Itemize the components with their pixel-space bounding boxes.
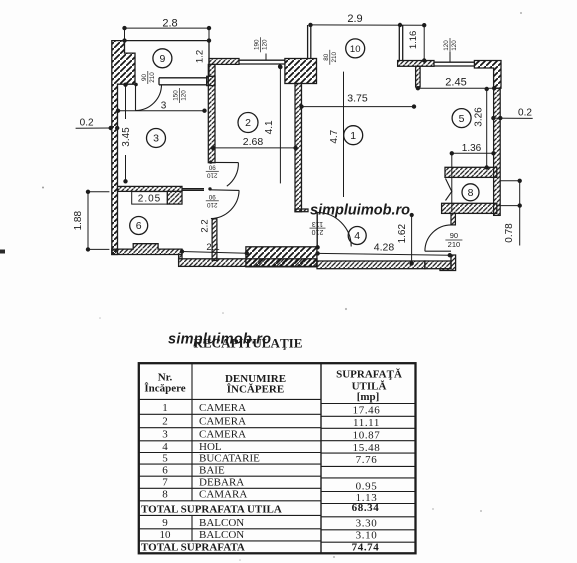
svg-text:1: 1 (162, 402, 168, 414)
wall pier balcony9 right (207, 76, 215, 85)
wall south door jamb right (440, 255, 456, 271)
wall door jamb room8 (451, 213, 455, 225)
dim 4.28 (318, 253, 450, 255)
svg-text:4: 4 (354, 230, 360, 242)
dim 2.68 (213, 147, 296, 149)
label door 113/210 room1 (310, 220, 326, 235)
svg-text:15.48: 15.48 (353, 442, 381, 454)
dim 4.1 vertical (279, 67, 281, 183)
svg-text:2.68: 2.68 (243, 136, 264, 148)
dim 3.75 (301, 106, 415, 108)
PLAN-DOOR-LABELS (141, 37, 462, 249)
svg-text:120: 120 (443, 40, 450, 51)
svg-text:6: 6 (136, 220, 142, 232)
window room3 north (159, 77, 207, 79)
svg-text:90: 90 (208, 164, 216, 171)
svg-text:TOTAL SUPRAFATA: TOTAL SUPRAFATA (141, 541, 245, 553)
svg-text:1.88: 1.88 (73, 211, 84, 231)
PLAN-ROOM-NUMBERS (130, 39, 479, 245)
svg-text:120: 120 (181, 90, 188, 101)
svg-text:0.78: 0.78 (504, 223, 515, 243)
svg-text:80: 80 (323, 53, 330, 61)
svg-text:1.36: 1.36 (462, 143, 482, 154)
svg-text:210: 210 (448, 240, 461, 249)
svg-text:simpluimob.ro: simpluimob.ro (310, 203, 410, 219)
room 3 circle (147, 129, 166, 148)
wall bath-hall partition (212, 219, 217, 261)
svg-text:3.75: 3.75 (347, 93, 368, 105)
wall room8 north (445, 167, 497, 177)
PLAN-DIM-TEXTS (73, 13, 532, 254)
dim 1.16 vertical (423, 25, 425, 60)
dim 2.45 (418, 87, 494, 89)
svg-text:4.1: 4.1 (264, 120, 275, 134)
svg-text:210: 210 (149, 72, 156, 83)
svg-text:1: 1 (350, 130, 356, 142)
door hall exterior leaf and arc (425, 250, 451, 252)
dim 2.8 (125, 27, 210, 29)
PLAN-DOORS (134, 83, 452, 252)
svg-text:2: 2 (245, 117, 251, 129)
wall south band connector (179, 255, 182, 259)
wall room3-room6 band (118, 186, 183, 191)
dim 3.45 vertical (125, 85, 127, 119)
svg-text:10.87: 10.87 (353, 430, 381, 442)
table v-line col1/2 (191, 363, 193, 501)
wall room3-room2 (208, 64, 215, 162)
svg-text:3.10: 3.10 (356, 530, 378, 542)
door bath leaf and arc (210, 189, 239, 192)
label door 90/210 balcony9 (141, 71, 156, 84)
svg-text:0.2: 0.2 (518, 108, 532, 119)
svg-text:DEBARA: DEBARA (199, 477, 244, 489)
dim 1.62 vertical (411, 213, 413, 264)
svg-text:9: 9 (162, 517, 168, 529)
label door 90/210 hall-exterior (445, 231, 462, 249)
door balcony9-room3 hinge leaf arc (134, 83, 138, 87)
bath threshold (182, 188, 204, 190)
svg-text:ÎNCĂPERE: ÎNCĂPERE (227, 384, 284, 396)
door room8 wedge (446, 179, 452, 201)
dim 2.9 (311, 24, 425, 26)
svg-text:Încăpere: Încăpere (144, 383, 185, 395)
svg-text:74.74: 74.74 (352, 542, 380, 554)
svg-text:2.2: 2.2 (200, 219, 211, 232)
dim 1.36 (452, 152, 494, 154)
svg-text:BALCON: BALCON (199, 529, 244, 541)
svg-text:11.11: 11.11 (353, 417, 380, 429)
door hinge dots (209, 160, 212, 163)
svg-text:5: 5 (162, 453, 168, 465)
room 8 circle (462, 184, 479, 201)
wall room2 north left (209, 59, 239, 65)
dim 3 room3 (118, 110, 205, 112)
balcony10 rail left (307, 25, 309, 59)
room 9 circle (153, 49, 172, 68)
svg-text:2.9: 2.9 (347, 13, 362, 25)
svg-text:CAMERA: CAMERA (199, 416, 246, 428)
svg-text:2.45: 2.45 (445, 77, 466, 89)
table h-lines value column (offset) (321, 404, 416, 543)
svg-text:2: 2 (162, 416, 168, 428)
extender window kitchen label (449, 52, 451, 62)
balcony10 rail right (398, 25, 400, 61)
label window 150/120 (173, 88, 188, 103)
svg-text:1.62: 1.62 (397, 224, 408, 244)
svg-text:3: 3 (153, 133, 159, 145)
door room3-hall leaf and arc (211, 161, 239, 163)
wall room8 south (442, 203, 497, 213)
window kitchen north (434, 61, 474, 63)
svg-text:7.76: 7.76 (356, 454, 378, 466)
svg-text:4.7: 4.7 (329, 129, 340, 143)
svg-text:150: 150 (173, 90, 180, 101)
svg-text:HOL: HOL (199, 441, 222, 453)
dim 4.7 vertical (343, 72, 345, 197)
svg-text:3.30: 3.30 (356, 518, 378, 530)
dim 2.1 (182, 252, 247, 254)
svg-text:BALCON: BALCON (199, 517, 244, 529)
room 5 circle (452, 109, 471, 128)
svg-text:4: 4 (162, 441, 168, 453)
svg-text:3: 3 (161, 101, 167, 112)
svg-text:3: 3 (162, 429, 168, 441)
wall room2-room1 (295, 84, 302, 212)
svg-text:CAMERA: CAMERA (199, 429, 246, 441)
svg-text:2.1: 2.1 (206, 242, 219, 253)
dim 0.78 vertical (500, 180, 520, 182)
svg-text:5: 5 (459, 113, 465, 125)
PLAN-RAILS-WINDOWS (125, 25, 475, 204)
balcony9 rail right (208, 41, 210, 77)
room 1 circle (344, 126, 363, 145)
room 4 circle (348, 227, 366, 245)
svg-text:BAIE: BAIE (199, 465, 225, 477)
svg-text:CAMERA: CAMERA (199, 402, 246, 414)
svg-text:120: 120 (451, 40, 458, 51)
extender window room2 label (265, 54, 267, 61)
svg-text:10: 10 (160, 529, 172, 541)
svg-text:210: 210 (207, 171, 218, 178)
dim 1.88 vertical (87, 192, 89, 250)
label door 90/210 bath (206, 193, 219, 208)
wall kitchen north left (398, 61, 434, 67)
wall bath pier (167, 191, 182, 204)
table h-lines left columns (139, 399, 321, 541)
label door 90/210 room3 (206, 164, 219, 179)
label door 80/210 balcony10 (323, 50, 338, 65)
svg-text:6: 6 (162, 465, 168, 477)
svg-text:3.26: 3.26 (474, 107, 485, 127)
svg-text:7: 7 (162, 477, 168, 489)
dim 0.2 left (76, 127, 111, 129)
TABLE-TEXT (141, 369, 402, 554)
svg-text:17.46: 17.46 (353, 405, 381, 417)
box dim 2.05 (132, 192, 168, 205)
svg-text:[mp]: [mp] (357, 391, 380, 403)
room 2 circle (238, 113, 258, 133)
wall kitchen-balcony10 stub (416, 66, 421, 87)
wall kitchen north-east chunk (474, 61, 501, 89)
svg-text:RECAPITULAŢIE: RECAPITULAŢIE (194, 336, 303, 351)
wall east exterior (494, 88, 501, 215)
svg-text:0.95: 0.95 (356, 481, 378, 493)
svg-text:90: 90 (208, 193, 216, 200)
svg-text:210: 210 (207, 201, 218, 208)
svg-text:190: 190 (254, 39, 261, 50)
svg-text:3.45: 3.45 (121, 127, 132, 147)
svg-text:2.05: 2.05 (138, 194, 161, 205)
svg-text:2.8: 2.8 (162, 18, 177, 30)
room 6 circle (130, 217, 148, 235)
balcony9 rail top (125, 40, 210, 42)
svg-text:1.2: 1.2 (195, 50, 206, 63)
door room1-hall leaf and arc (316, 212, 318, 247)
wall left exterior (112, 41, 135, 255)
svg-text:90: 90 (141, 74, 148, 82)
PLAN-DIMENSIONS (76, 23, 533, 265)
wall south thick block (246, 247, 317, 267)
wall stub hall north (295, 209, 308, 212)
table outer border (139, 363, 416, 553)
svg-text:210: 210 (312, 228, 324, 235)
table v-line col2/3 (320, 363, 322, 553)
svg-text:120: 120 (262, 39, 269, 50)
wall south band left (179, 259, 317, 267)
svg-text:68.34: 68.34 (352, 502, 380, 514)
svg-text:113: 113 (312, 220, 323, 227)
svg-text:10: 10 (350, 44, 361, 55)
label window 190/120 (254, 37, 269, 52)
label window 120/120 kitchen (443, 38, 458, 53)
svg-text:4.28: 4.28 (374, 242, 395, 254)
wall south band right (317, 261, 425, 269)
room 10 circle (346, 39, 365, 58)
TABLE (139, 363, 416, 553)
window room2 north (239, 59, 285, 61)
dim 3.26 vertical (486, 89, 488, 168)
svg-text:8: 8 (468, 187, 474, 199)
svg-text:9: 9 (159, 53, 165, 65)
svg-text:1.16: 1.16 (408, 31, 419, 50)
svg-text:BUCATARIE: BUCATARIE (199, 453, 260, 465)
wall south band under door (425, 261, 451, 269)
svg-text:0.2: 0.2 (80, 117, 94, 128)
svg-text:CAMARA: CAMARA (199, 489, 247, 501)
wall room6 south band with step (112, 244, 182, 255)
svg-text:210: 210 (331, 52, 338, 63)
wall room2 north-right chunk (285, 59, 317, 84)
svg-text:8: 8 (162, 489, 168, 501)
svg-text:TOTAL SUPRAFATA UTILA: TOTAL SUPRAFATA UTILA (141, 503, 282, 515)
dim 0.2 right (493, 117, 532, 119)
svg-text:90: 90 (450, 231, 458, 240)
svg-text:SUPRAFAŢĂ: SUPRAFAŢĂ (336, 369, 402, 381)
